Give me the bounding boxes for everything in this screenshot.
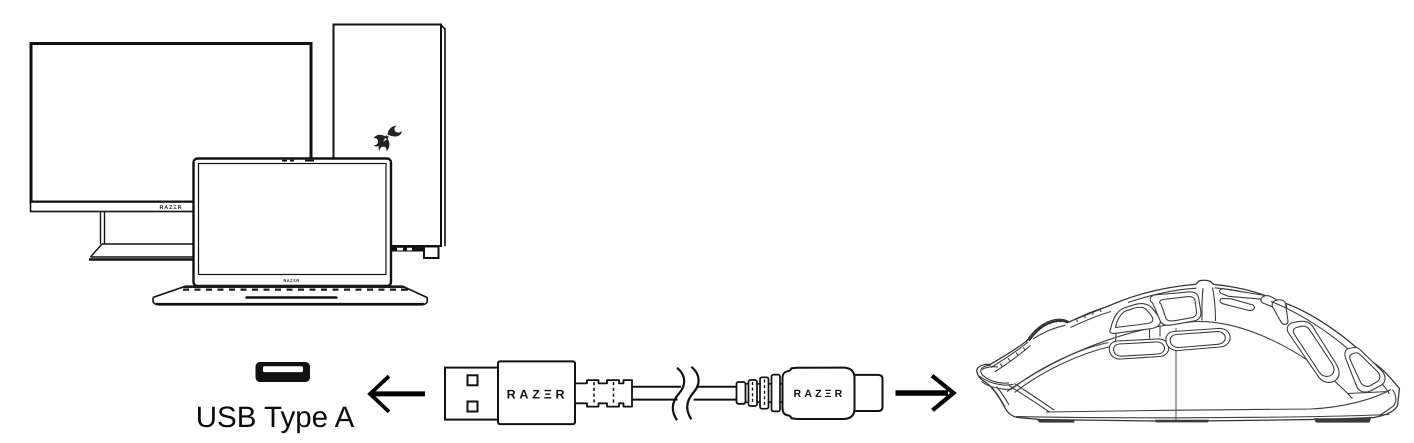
- mouse cage ring A: [1110, 304, 1161, 334]
- usb-a holes: [468, 375, 478, 385]
- laptop base bottom line: [156, 303, 424, 305]
- laptop trackpad notch: [245, 296, 337, 298]
- mouse front side panel edges: [1009, 384, 1054, 413]
- usb type A port icon: [256, 362, 311, 382]
- mouse side pill right: [1166, 328, 1230, 350]
- mouse dome secondary: [1011, 343, 1111, 393]
- cable left segment: [632, 387, 681, 400]
- mouse ring D outer: [1287, 321, 1339, 382]
- monitor stand base: [91, 244, 195, 257]
- tower foot: [424, 247, 439, 259]
- mouse band ticks right: [1076, 309, 1101, 322]
- usb-c rib dashes: [753, 380, 765, 407]
- svg-text:RAZΞR: RAZΞR: [283, 278, 299, 283]
- usb-c strain relief neck: [746, 384, 785, 402]
- mouse foot middle: [1155, 420, 1209, 423]
- mouse nub strut: [1202, 288, 1216, 322]
- mouse ring D hole: [1293, 326, 1334, 376]
- tower side edge: [441, 25, 445, 246]
- laptop screen: [194, 159, 392, 287]
- monitor: [31, 44, 312, 260]
- mouse button seam band: [991, 342, 1031, 372]
- mouse ring E hole: [1350, 353, 1380, 387]
- mouse dome curve: [1007, 321, 1353, 398]
- svg-text:RAZΞR: RAZΞR: [794, 388, 846, 400]
- mouse side pill left: [1109, 339, 1168, 359]
- right arrow: [896, 376, 954, 411]
- usb-c rib 1: [749, 380, 758, 406]
- tower razer logo: [373, 126, 402, 152]
- mouse pill cutouts top right: [1220, 289, 1266, 299]
- mouse crown inner line: [1128, 288, 1274, 303]
- svg-text:USB Type A: USB Type A: [196, 401, 355, 434]
- mouse cage ring B: [1150, 292, 1201, 325]
- mouse: [977, 280, 1400, 422]
- laptop: [153, 159, 427, 305]
- strain relief left: [575, 380, 632, 407]
- cable break: [673, 368, 684, 421]
- usb cable: [445, 361, 883, 424]
- mouse body silhouette: [977, 280, 1400, 421]
- mouse wheel inner chord: [1033, 325, 1066, 339]
- mouse front lower shading lines: [992, 387, 1009, 408]
- mouse rear base wedge: [1348, 390, 1396, 417]
- monitor stand column: [101, 212, 105, 244]
- cable right segment: [694, 387, 737, 400]
- mouse foot rear: [1314, 418, 1371, 422]
- mouse ring E outer: [1345, 348, 1385, 393]
- laptop keyboard deck: [153, 286, 427, 305]
- desktop tower: [334, 25, 446, 259]
- usb-a overmold: [498, 361, 575, 424]
- usb-c rib 3: [772, 375, 781, 412]
- mouse bottom inner line: [1016, 415, 1389, 418]
- mouse arch inner line: [1271, 302, 1390, 395]
- mouse base separation: [1046, 390, 1391, 413]
- mouse scroll wheel: [1029, 321, 1068, 341]
- mouse right strut ring: [1272, 300, 1288, 325]
- usb-c rib 2: [760, 377, 769, 408]
- svg-text:RAZΞR: RAZΞR: [160, 205, 183, 211]
- mouse band continuation: [1069, 306, 1112, 328]
- usb-c plug: [855, 375, 883, 411]
- svg-text:RAZΞR: RAZΞR: [507, 387, 569, 401]
- mouse foot front: [1037, 420, 1075, 423]
- usb-c overmold: [783, 368, 855, 419]
- mouse center seam: [1175, 328, 1177, 421]
- mouse cage A verticals: [1116, 327, 1161, 343]
- usb-a metal shell: [445, 368, 498, 420]
- left arrow: [370, 376, 425, 412]
- laptop camera dots: [282, 160, 314, 162]
- laptop key row: [182, 286, 407, 288]
- tower base strip: [391, 247, 424, 252]
- mouse front lip inner: [981, 365, 1009, 383]
- usb-c collar: [737, 382, 746, 404]
